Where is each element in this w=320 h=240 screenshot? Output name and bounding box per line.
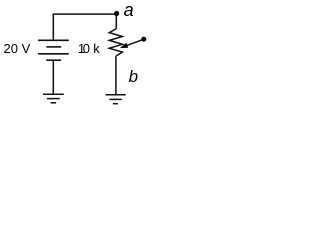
svg-text:20 V: 20 V bbox=[4, 41, 31, 56]
wire wiper to terminal bbox=[127, 39, 144, 45]
svg-text:b: b bbox=[129, 67, 138, 86]
node a junction dot bbox=[114, 11, 119, 16]
battery 20 V bbox=[38, 40, 69, 60]
ground right bbox=[106, 95, 126, 104]
node wiper terminal dot bbox=[141, 37, 146, 42]
potentiometer wiper arrowhead bbox=[120, 43, 128, 48]
wire battery to left ground bbox=[52, 60, 54, 94]
wire node a to potentiometer top bbox=[115, 14, 117, 29]
wire top rail from battery to node a bbox=[53, 14, 116, 40]
svg-text:a: a bbox=[124, 0, 134, 20]
wire potentiometer bottom to right ground bbox=[115, 56, 117, 95]
svg-text:k: k bbox=[93, 41, 100, 56]
potentiometer 10 k body bbox=[109, 29, 122, 56]
ground left bbox=[43, 94, 64, 103]
svg-text:0: 0 bbox=[83, 41, 90, 56]
